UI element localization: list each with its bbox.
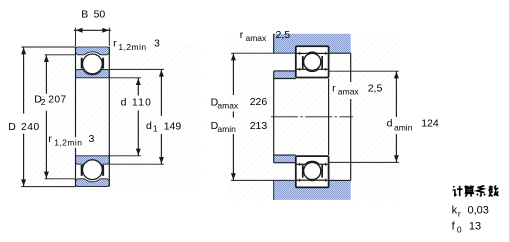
- svg-text:213: 213: [250, 120, 268, 132]
- svg-text:240: 240: [21, 122, 40, 133]
- svg-text:r: r: [240, 29, 244, 41]
- svg-text:0: 0: [457, 225, 462, 235]
- svg-text:3: 3: [89, 133, 95, 145]
- svg-text:amax: amax: [246, 33, 268, 43]
- svg-text:k: k: [452, 205, 458, 217]
- svg-text:amin: amin: [394, 123, 413, 133]
- svg-text:3: 3: [154, 37, 160, 49]
- svg-text:2: 2: [41, 97, 46, 107]
- svg-text:r: r: [48, 133, 52, 145]
- svg-text:0,03: 0,03: [468, 205, 489, 217]
- svg-text:amax: amax: [338, 87, 360, 97]
- svg-text:2,5: 2,5: [368, 83, 383, 95]
- svg-text:149: 149: [164, 121, 182, 133]
- svg-text:124: 124: [421, 117, 439, 129]
- svg-text:2,5: 2,5: [276, 29, 291, 41]
- svg-text:r: r: [458, 209, 461, 219]
- svg-text:1: 1: [153, 124, 158, 134]
- svg-text:13: 13: [469, 221, 481, 233]
- svg-text:110: 110: [132, 98, 152, 109]
- svg-text:207: 207: [48, 95, 66, 106]
- svg-text:1,2min: 1,2min: [118, 42, 146, 52]
- svg-text:r: r: [332, 82, 336, 94]
- svg-text:d: d: [387, 117, 393, 129]
- svg-text:1,2min: 1,2min: [54, 138, 82, 148]
- svg-text:amin: amin: [217, 124, 236, 134]
- svg-text:226: 226: [250, 96, 268, 108]
- svg-text:r: r: [113, 37, 117, 49]
- svg-text:d: d: [121, 97, 127, 109]
- svg-text:50: 50: [94, 8, 106, 20]
- svg-text:d: d: [146, 120, 152, 132]
- svg-text:B: B: [81, 8, 88, 20]
- svg-text:D: D: [8, 121, 16, 133]
- svg-text:amax: amax: [217, 100, 239, 110]
